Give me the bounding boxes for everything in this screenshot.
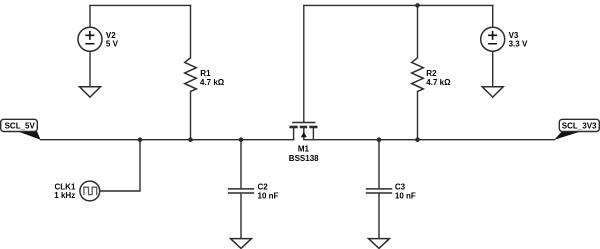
net flag SCL_3V3	[554, 119, 599, 140]
svg-text:R1: R1	[200, 69, 211, 78]
svg-text:BSS138: BSS138	[289, 154, 319, 163]
voltage source V3	[481, 27, 505, 51]
label CLK1 value	[54, 182, 76, 200]
wire V2 top stub	[89, 5, 91, 27]
ground below C3	[369, 239, 390, 249]
node junction R1/rail	[188, 137, 193, 142]
resistor R2	[412, 58, 424, 92]
wire V3 to ground	[492, 51, 494, 87]
wire main rail left (SCL_5V net)	[41, 139, 294, 141]
label V3 value	[509, 31, 528, 49]
label V2 value	[106, 31, 119, 49]
voltage source V2	[78, 27, 102, 51]
clock source CLK1	[80, 181, 100, 201]
svg-text:R2: R2	[426, 69, 437, 78]
wire CLK1 to rail	[100, 140, 140, 191]
resistor R1	[185, 58, 197, 92]
node junction CLK1/rail	[138, 137, 143, 142]
svg-text:5 V: 5 V	[106, 40, 119, 49]
node junction C2/rail	[239, 137, 244, 142]
svg-text:10 nF: 10 nF	[395, 192, 416, 201]
svg-text:M1: M1	[298, 144, 310, 153]
svg-text:V2: V2	[106, 31, 116, 40]
wire top-middle rail	[304, 4, 493, 6]
svg-text:SCL_3V3: SCL_3V3	[562, 121, 597, 130]
wire M1 gate lead	[303, 5, 305, 122]
wire C2 top lead	[240, 140, 242, 189]
svg-text:1 kHz: 1 kHz	[54, 191, 75, 200]
node junction R2/rail	[415, 137, 420, 142]
wire C3 bottom lead	[378, 194, 380, 239]
svg-text:10 nF: 10 nF	[258, 192, 279, 201]
net flag SCL_5V	[1, 119, 41, 140]
label R2 value	[426, 69, 451, 87]
capacitor C2	[228, 189, 254, 193]
svg-text:CLK1: CLK1	[55, 182, 76, 191]
svg-text:V3: V3	[509, 31, 519, 40]
wire C2 bottom lead	[240, 194, 242, 239]
label C3 value	[395, 183, 416, 201]
node junction R2/top rail	[415, 3, 420, 8]
wire R2 bottom lead	[417, 91, 419, 139]
ground below V3	[482, 87, 503, 97]
capacitor C3	[366, 189, 392, 193]
label R1 value	[200, 69, 225, 87]
wire C3 top lead	[378, 140, 380, 189]
wire top-left rail	[90, 4, 191, 6]
svg-text:3.3 V: 3.3 V	[509, 40, 528, 49]
svg-text:C3: C3	[395, 183, 406, 192]
label M1 value	[289, 144, 319, 163]
svg-text:C2: C2	[258, 183, 269, 192]
svg-text:4.7 kΩ: 4.7 kΩ	[426, 78, 451, 87]
wire V3 top stub	[492, 5, 494, 27]
svg-text:4.7 kΩ: 4.7 kΩ	[200, 78, 225, 87]
transistor M1 (NMOS BSS138)	[290, 123, 318, 140]
svg-text:SCL_5V: SCL_5V	[5, 122, 36, 131]
wire R1 top lead	[190, 5, 192, 57]
label C2 value	[258, 183, 279, 201]
wire main rail right (SCL_3V3 net)	[304, 139, 555, 141]
wire V2 to ground	[89, 51, 91, 87]
ground below C2	[231, 239, 252, 249]
ground below V2	[80, 87, 101, 97]
wire R2 top lead	[417, 5, 419, 57]
node junction C3/rail	[377, 137, 382, 142]
wire R1 bottom lead	[190, 91, 192, 139]
